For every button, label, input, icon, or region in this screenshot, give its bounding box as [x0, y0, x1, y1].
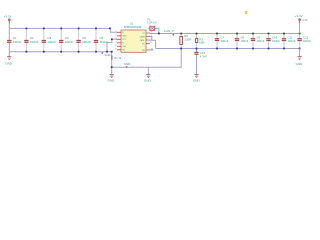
power flag +3V3 top-right [295, 14, 308, 33]
junction dots right ladder top rail [158, 33, 301, 35]
svg-text:VCC: VCC [122, 39, 127, 41]
wire right ladder column C7 [216, 33, 218, 48]
capacitor C11 [282, 35, 296, 42]
ground symbol below C13 [193, 75, 201, 83]
svg-text:120R: 120R [184, 38, 191, 42]
wire GND bus below IC [112, 48, 182, 74]
svg-text:GND: GND [107, 79, 115, 83]
capacitor C4 [59, 36, 74, 44]
fuse F1 [147, 17, 159, 33]
capacitor C7 [215, 35, 229, 42]
capacitor C13 split term [194, 48, 207, 74]
svg-text:100nF: 100nF [288, 39, 296, 43]
capacitor C12 [297, 35, 311, 42]
capacitor C5 [76, 36, 91, 44]
wire IC pin3 to GND rail jog [107, 39, 117, 51]
svg-text:CAN_V: CAN_V [164, 29, 174, 33]
net label under U1 [112, 56, 122, 60]
svg-text:GND: GND [144, 79, 152, 83]
svg-text:100nF: 100nF [65, 40, 74, 44]
svg-text:CANL: CANL [139, 39, 145, 42]
ground symbol bottom-right [296, 48, 304, 65]
svg-text:3.3V: 3.3V [302, 19, 307, 22]
net label GND on bus wire [124, 62, 132, 68]
svg-text:+3.3V: +3.3V [295, 14, 303, 18]
svg-text:GND: GND [124, 62, 132, 66]
svg-text:Vref: Vref [122, 46, 126, 48]
capacitor C10 [266, 35, 280, 42]
U1 left pin names [122, 32, 127, 52]
wire right ladder column C12 [299, 33, 301, 48]
U1 right pin numbers [151, 32, 153, 51]
junction corner dot at IC pin3 jog [111, 38, 113, 40]
U1 right pin stubs [146, 33, 150, 50]
svg-text:GND: GND [104, 53, 110, 57]
wire right ladder column C11 [283, 33, 285, 48]
wire U1 pin7 routing [150, 37, 152, 41]
svg-text:R1 1k: R1 1k [114, 56, 121, 60]
junction dots right ladder bottom rail [180, 48, 300, 50]
wire ladder column C2 [25, 28, 27, 51]
U1 left pin numbers [115, 31, 117, 51]
svg-text:100nF: 100nF [100, 40, 109, 44]
capacitor C8 [235, 35, 249, 42]
svg-text:100nF: 100nF [303, 39, 311, 43]
wire right ladder column C10 [268, 33, 270, 48]
wire right ladder column R3 [196, 33, 198, 48]
power flag +3V3 top-left [4, 15, 12, 24]
svg-text:GND: GND [122, 36, 127, 38]
wire ladder column C4 [60, 28, 62, 51]
ground symbol below bus x112 [107, 75, 115, 83]
capacitor C6 [94, 36, 109, 44]
capacitor C2 [24, 36, 39, 44]
wire right ladder column C8 [236, 33, 238, 48]
svg-text:100nF: 100nF [82, 40, 91, 44]
svg-text:GND: GND [193, 79, 201, 83]
svg-text:100nF: 100nF [272, 39, 280, 43]
capacitor C9 [251, 35, 265, 42]
svg-text:CANH: CANH [139, 35, 145, 38]
svg-text:100nF: 100nF [13, 40, 22, 44]
wire ladder column C5 [78, 28, 80, 51]
wire bottom-left GND rail [9, 28, 111, 51]
junction dots left ladder top rail [26, 28, 97, 30]
svg-text:100nF: 100nF [47, 40, 56, 44]
wire right CANH/VCC rail [150, 32, 300, 34]
svg-text:100nF: 100nF [257, 39, 265, 43]
ground symbol below bus x148 [144, 75, 152, 83]
junction dot GND bus left [111, 66, 113, 68]
svg-text:GND: GND [5, 62, 13, 66]
net label GND on bottom rail [102, 52, 111, 56]
svg-text:100nF: 100nF [241, 39, 249, 43]
svg-text:0.5A 6V: 0.5A 6V [147, 21, 157, 25]
svg-text:+3.3V: +3.3V [4, 15, 12, 19]
svg-text:SN65HVD230: SN65HVD230 [124, 25, 142, 29]
wire ladder column C6 [95, 28, 97, 51]
wire right bottom GND rail [156, 47, 300, 49]
svg-text:100nF: 100nF [221, 39, 229, 43]
wire right ladder column R2 [180, 33, 182, 48]
junction dot top rail near IC [109, 28, 111, 30]
svg-text:4.7nF: 4.7nF [200, 54, 207, 58]
svg-text:60R: 60R [199, 41, 204, 45]
wire U1 pin6 routing [150, 40, 156, 48]
svg-text:GND: GND [296, 62, 304, 66]
capacitor C3 [41, 36, 56, 44]
svg-text:100nF: 100nF [30, 40, 39, 44]
U1 right pin names [139, 33, 146, 52]
ground symbol bottom-left [5, 52, 13, 66]
wire top-left VCC rail [9, 21, 117, 32]
IC U1 CAN transceiver body [121, 22, 146, 53]
net label on right rail [164, 29, 174, 35]
U1 left pin stubs [117, 32, 121, 50]
wire right ladder column C9 [252, 33, 254, 48]
wire ladder column C3 [43, 28, 45, 51]
capacitor C1 [7, 36, 22, 44]
resistor R2 120R [180, 34, 191, 44]
resistor R3 [195, 37, 204, 44]
junction dots left ladder bottom rail [26, 51, 113, 53]
wire U1 pin4 routing [150, 48, 153, 50]
yellow marker dot [245, 11, 248, 14]
